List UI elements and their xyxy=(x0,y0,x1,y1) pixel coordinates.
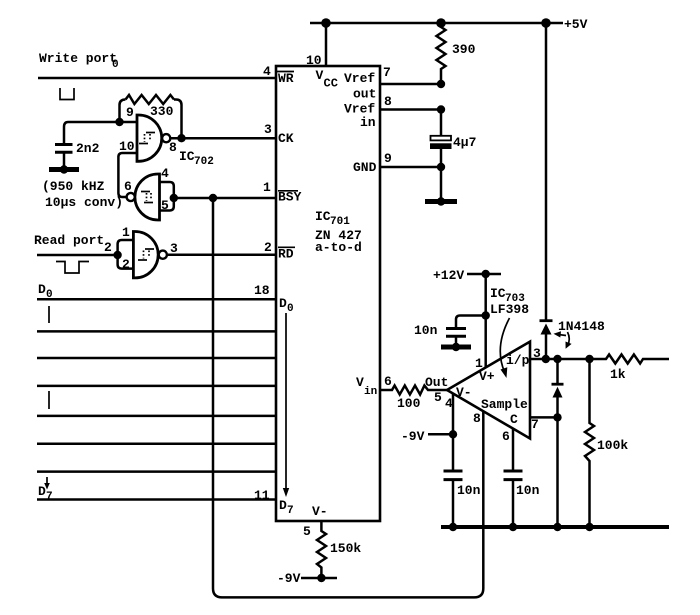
nand gate IC702a pins 9,10,8 xyxy=(137,115,162,161)
svg-text:330: 330 xyxy=(150,104,174,119)
svg-text:D: D xyxy=(38,484,46,499)
svg-text:1: 1 xyxy=(122,225,130,240)
wire to ground symbol xyxy=(440,167,443,200)
svg-text:BSY: BSY xyxy=(278,190,302,205)
wire data line D3 xyxy=(37,385,276,388)
svg-text:CC: CC xyxy=(324,77,338,91)
svg-text:0: 0 xyxy=(112,59,119,71)
wire GND pin 9 xyxy=(380,166,441,169)
svg-text:in: in xyxy=(364,386,377,398)
wire BSY line xyxy=(174,197,276,200)
svg-text:9: 9 xyxy=(126,105,134,120)
svg-text:18: 18 xyxy=(254,283,270,298)
svg-text:WR: WR xyxy=(278,71,294,86)
svg-text:Sample: Sample xyxy=(481,397,528,412)
svg-text:1: 1 xyxy=(263,180,271,195)
wire 10n to ground xyxy=(455,336,458,346)
svg-text:10n: 10n xyxy=(457,483,481,498)
svg-text:8: 8 xyxy=(169,140,177,155)
bus tick mark xyxy=(48,391,50,409)
resistor 390 xyxy=(437,23,446,84)
svg-text:+5V: +5V xyxy=(564,17,588,32)
svg-text:2: 2 xyxy=(264,240,272,255)
capacitor 2n2 xyxy=(55,143,73,146)
wire BSY loop to sample pin 8 xyxy=(213,198,483,597)
svg-text:4µ7: 4µ7 xyxy=(453,135,476,150)
svg-text:5: 5 xyxy=(434,390,442,405)
bus arrow D0 to D7 inside IC xyxy=(285,313,287,490)
svg-text:2n2: 2n2 xyxy=(76,141,100,156)
svg-text:4: 4 xyxy=(161,166,169,181)
wire cap to rail xyxy=(452,480,455,527)
wire +12V down to V+ pin 1 xyxy=(484,274,487,368)
svg-text:10µs conv): 10µs conv) xyxy=(45,195,123,210)
schmitt symbol gate3 xyxy=(145,248,154,250)
wire V- pin 4 branch down xyxy=(452,394,455,471)
svg-text:100: 100 xyxy=(397,396,421,411)
svg-text:100k: 100k xyxy=(597,438,628,453)
svg-text:D: D xyxy=(279,296,287,311)
write pulse waveform xyxy=(60,88,74,100)
svg-text:IC: IC xyxy=(490,286,506,301)
wire 4u7 to GND pin line xyxy=(440,149,443,167)
svg-text:+12V: +12V xyxy=(433,268,464,283)
svg-text:out: out xyxy=(353,87,376,102)
svg-text:2: 2 xyxy=(104,240,112,255)
schmitt symbol gate2 xyxy=(141,191,150,193)
wire RD output line xyxy=(167,253,276,256)
wire data line D1 xyxy=(37,330,276,333)
svg-text:IC: IC xyxy=(315,209,331,224)
svg-text:3: 3 xyxy=(264,122,272,137)
svg-text:Vref: Vref xyxy=(344,71,375,86)
wire +5V rail xyxy=(310,22,563,25)
resistor 150k on pin 5 V- xyxy=(317,521,326,578)
wire to decoupling 10n xyxy=(456,316,486,329)
svg-text:150k: 150k xyxy=(330,541,361,556)
svg-text:i/p: i/p xyxy=(506,353,530,368)
wire Vref out pin 7 xyxy=(380,83,441,86)
wire WR line xyxy=(38,77,276,80)
junction on +5V rail at Vcc xyxy=(321,18,331,28)
svg-text:-9V: -9V xyxy=(401,429,425,444)
capacitor 10n at V- xyxy=(444,470,463,473)
svg-text:390: 390 xyxy=(452,42,476,57)
svg-text:GND: GND xyxy=(353,160,377,175)
wire gate3 input bracket pins 1,2 xyxy=(118,240,134,269)
svg-text:Read port: Read port xyxy=(34,233,104,248)
svg-text:CK: CK xyxy=(278,131,294,146)
op-amp IC701 ZN427 box xyxy=(276,66,380,521)
svg-text:6: 6 xyxy=(502,429,510,444)
svg-text:8: 8 xyxy=(473,411,481,426)
svg-text:7: 7 xyxy=(46,491,53,503)
svg-text:D: D xyxy=(279,498,287,513)
wire gate1 pin10 to gate2 output xyxy=(118,153,137,197)
read pulse waveform xyxy=(56,262,89,274)
wire ground rail xyxy=(441,525,669,529)
svg-text:V-: V- xyxy=(456,385,472,400)
ground xyxy=(425,199,457,204)
svg-text:6: 6 xyxy=(384,374,392,389)
svg-text:a-to-d: a-to-d xyxy=(315,240,362,255)
svg-text:10n: 10n xyxy=(414,323,438,338)
svg-text:10n: 10n xyxy=(516,483,540,498)
wire data line D0 xyxy=(37,298,276,301)
svg-text:6: 6 xyxy=(124,179,132,194)
wire data line D4 xyxy=(37,415,276,418)
svg-text:V: V xyxy=(316,68,324,83)
svg-text:9: 9 xyxy=(384,151,392,166)
svg-text:V: V xyxy=(356,375,364,390)
resistor 100k xyxy=(585,359,594,527)
wire +12V xyxy=(467,273,501,276)
wire from pin8 node down to 4u7 xyxy=(440,110,443,137)
wire Vin pin 6 and resistor 100 xyxy=(380,386,447,395)
svg-text:1k: 1k xyxy=(610,367,626,382)
wire pin 7 to diode D2 node xyxy=(530,416,558,419)
svg-text:5: 5 xyxy=(303,524,311,539)
wire Read port line xyxy=(37,254,118,257)
wire pin9 input line xyxy=(64,122,137,144)
curved arrow from LF398 label to triangle xyxy=(500,318,509,372)
svg-text:4: 4 xyxy=(263,64,271,79)
wire Vcc from +5V to pin 10 xyxy=(325,23,328,66)
svg-text:7: 7 xyxy=(531,417,539,432)
svg-text:Out: Out xyxy=(425,375,448,390)
wire data line D7 xyxy=(37,498,276,501)
nand gate IC702b pins 4,5,6 facing left xyxy=(135,174,160,220)
capacitor 10n hold xyxy=(504,470,523,473)
svg-text:in: in xyxy=(360,115,376,130)
wire CK output line xyxy=(170,137,276,140)
junction on +5V rail at diode branch xyxy=(541,18,551,28)
svg-text:-9V: -9V xyxy=(277,571,301,586)
schmitt symbol gate1 xyxy=(146,132,155,134)
svg-text:V-: V- xyxy=(312,504,328,519)
wire data line D2 xyxy=(37,357,276,360)
svg-text:7: 7 xyxy=(287,505,294,517)
nand gate IC702c pins 1,2,3 xyxy=(133,232,158,278)
resistor 330 feedback xyxy=(174,100,182,139)
junction on +5V rail at 390 xyxy=(436,18,446,28)
bus tick mark xyxy=(48,306,50,323)
svg-text:701: 701 xyxy=(330,216,350,228)
svg-text:Write port: Write port xyxy=(39,51,117,66)
node D7 label with arrow xyxy=(46,477,48,484)
svg-text:8: 8 xyxy=(384,94,392,109)
wire hold cap pin 6 xyxy=(512,429,515,471)
diode D2 1N4148 clamp low xyxy=(556,359,559,384)
svg-text:IC: IC xyxy=(179,149,195,164)
svg-text:D: D xyxy=(38,282,46,297)
wire gate2 input bracket pins 4,5 xyxy=(160,182,174,211)
wire hold cap to rail xyxy=(512,480,515,527)
op-amp IC703 LF398 triangle xyxy=(447,342,530,439)
svg-text:(950 kHZ: (950 kHZ xyxy=(42,179,105,194)
svg-text:C: C xyxy=(510,412,518,427)
diode D1 1N4148 clamp to +5V xyxy=(540,319,553,322)
ground xyxy=(441,345,471,350)
capacitor 4u7 polarized xyxy=(431,136,452,141)
ground xyxy=(49,167,79,172)
wire data line D6 xyxy=(37,470,276,473)
wire i/p node pin 3 line with resistor 1k xyxy=(530,355,669,364)
svg-text:2: 2 xyxy=(122,257,130,272)
arrow to diode D2 xyxy=(568,332,570,346)
wire +5V branch down to clamp diode xyxy=(545,23,548,320)
svg-text:LF398: LF398 xyxy=(490,302,529,317)
svg-text:1N4148: 1N4148 xyxy=(558,319,605,334)
svg-text:V+: V+ xyxy=(479,369,495,384)
svg-text:0: 0 xyxy=(287,303,294,315)
svg-text:7: 7 xyxy=(383,65,391,80)
arrow to diode D1 xyxy=(557,334,566,335)
capacitor 10n decoupling xyxy=(446,327,466,330)
wire 2n2 to ground xyxy=(63,152,66,168)
wire Vref in pin 8 xyxy=(380,108,441,111)
wire data line D5 xyxy=(37,442,276,445)
svg-text:702: 702 xyxy=(194,156,214,168)
svg-text:RD: RD xyxy=(278,247,294,262)
